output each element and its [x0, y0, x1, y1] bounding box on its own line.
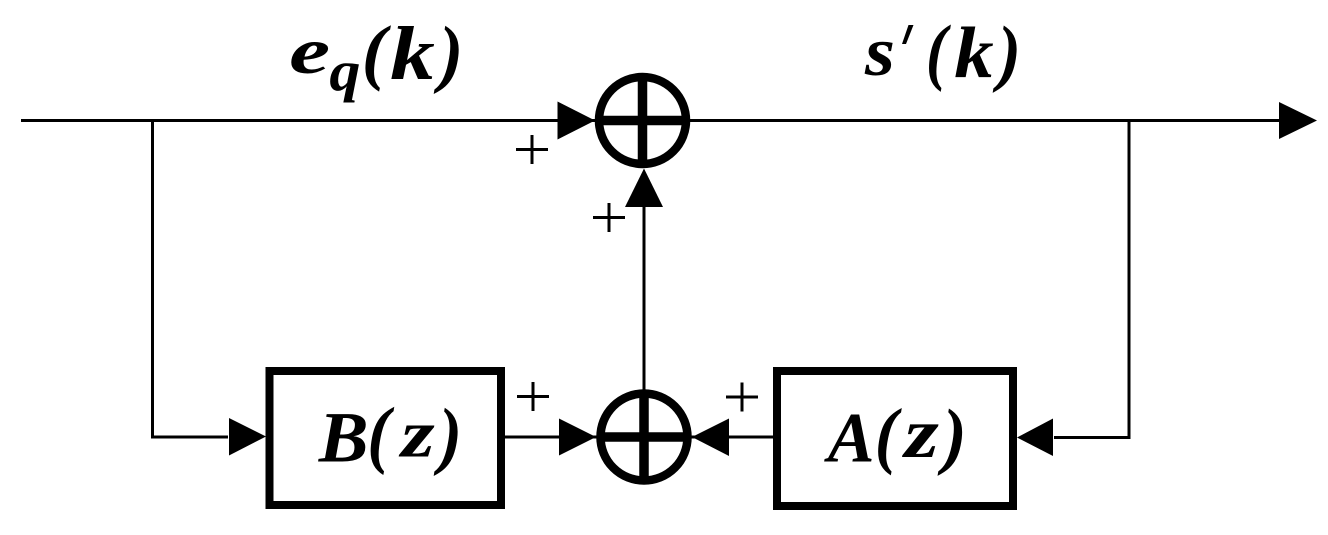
- arrowhead from B(z) into adder S2: [559, 419, 596, 456]
- wire: main input line to adder S1: [21, 119, 596, 122]
- wire: output line from adder S1 to right edge: [689, 119, 1300, 122]
- svg-text:s: s: [864, 12, 895, 90]
- svg-text:e: e: [289, 15, 330, 87]
- svg-text:z: z: [901, 395, 939, 473]
- label A(z): [824, 394, 967, 477]
- arrowhead into adder S1 from left: [558, 102, 596, 140]
- plus sign at S1 left input: [516, 135, 548, 164]
- label B(z): [318, 393, 462, 478]
- arrowhead output at right edge: [1279, 102, 1317, 139]
- block A(z) box: [777, 371, 1013, 506]
- svg-text:q: q: [329, 40, 360, 103]
- arrowhead into adder S1 from below: [625, 169, 663, 208]
- block B(z) box: [270, 371, 502, 505]
- wire: B(z) output to adder S2: [505, 436, 597, 439]
- arrowhead into B(z): [229, 418, 266, 456]
- node: right branch junction, wire down from output line: [1054, 121, 1129, 438]
- wire: A(z) output to adder S2: [692, 436, 774, 439]
- plus sign at S2 left input: [517, 382, 549, 411]
- svg-text:A: A: [824, 399, 875, 478]
- svg-text:z: z: [398, 396, 435, 471]
- svg-text:k: k: [954, 13, 993, 94]
- svg-text:B: B: [318, 398, 369, 477]
- plus sign at S2 right input: [726, 383, 758, 412]
- arrowhead from A(z) into adder S2: [692, 419, 729, 457]
- adder S1 (top summing junction): [595, 73, 690, 168]
- svg-text:k: k: [390, 11, 435, 95]
- wire: from adder S2 up to adder S1: [643, 206, 646, 390]
- plus sign at S1 bottom input: [593, 203, 625, 232]
- arrowhead into A(z): [1017, 419, 1053, 457]
- node: left branch junction, wire down from input line: [153, 121, 229, 438]
- adder S2 (bottom summing junction): [597, 390, 692, 485]
- label s'(k): [864, 10, 1021, 95]
- label e_q(k): [289, 10, 463, 103]
